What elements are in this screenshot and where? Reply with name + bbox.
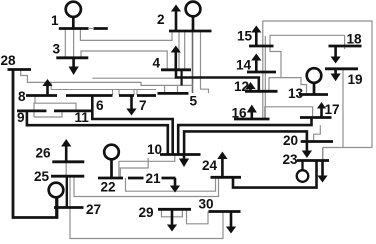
load arrow bus 26 [61, 139, 71, 162]
wire rail 2-6 [92, 77, 176, 79]
svg-text:16: 16 [232, 106, 248, 121]
bus 1 [59, 27, 108, 30]
bus 12 [245, 90, 278, 93]
svg-text:13: 13 [288, 86, 304, 101]
bus 15 [249, 45, 274, 48]
bus 2 [169, 30, 212, 33]
wire 27-30 [70, 176, 223, 238]
svg-text:28: 28 [1, 53, 17, 68]
wire 15-18 [269, 35, 345, 91]
wire 10-20 thick [184, 131, 307, 154]
wire 10-17 thick [178, 118, 311, 155]
wire 22-24 [126, 177, 216, 191]
generator G2 [186, 2, 201, 31]
bus 25 [51, 175, 84, 178]
wire 2-5 [178, 31, 180, 70]
bus 6 [66, 94, 156, 97]
bus 3 [56, 56, 88, 59]
wire 12 loop to 19 [263, 21, 372, 148]
svg-text:7: 7 [139, 98, 147, 113]
svg-text:18: 18 [347, 32, 363, 47]
wire 8-9 [34, 96, 36, 104]
wire 9-10 thick [27, 111, 168, 155]
load arrow bus 19 [331, 69, 341, 82]
load arrow bus 4 [171, 46, 181, 70]
svg-text:11: 11 [75, 110, 90, 125]
wire rail 6-8 [21, 70, 193, 86]
wire 2-4 [184, 31, 186, 70]
bus 11 [54, 110, 91, 113]
wire 12-15 [264, 36, 266, 119]
bus 18 [329, 45, 362, 48]
bus 14 [247, 71, 276, 74]
bus 29 [158, 208, 191, 211]
load arrow bus 30 [226, 212, 236, 234]
wire box 9-11 lower [34, 111, 62, 117]
wire 6-10 thick [92, 96, 172, 155]
bus 30 [209, 210, 241, 213]
wire 16-17 [265, 107, 313, 119]
bus 19 [325, 67, 358, 70]
bus 17 [300, 116, 332, 119]
bus 1 gap link [88, 28, 94, 30]
bus 26 [52, 160, 84, 163]
load arrow bus 14 [251, 54, 261, 73]
svg-text:20: 20 [283, 133, 298, 148]
wire 19-20 drop [342, 69, 344, 148]
svg-text:26: 26 [36, 146, 52, 161]
svg-text:6: 6 [96, 98, 104, 113]
bus 20 [301, 140, 333, 143]
wire 17-23 [322, 148, 324, 161]
wire 2-6 [192, 31, 194, 93]
wire 23-24 thick [233, 161, 317, 188]
wire 1-2 [80, 29, 172, 41]
bus 10 [160, 153, 201, 156]
svg-text:27: 27 [86, 202, 101, 217]
svg-text:30: 30 [199, 197, 214, 212]
svg-text:22: 22 [101, 180, 117, 195]
generator G13 [307, 68, 322, 94]
wire 4-6 thick [181, 70, 183, 86]
wire 29-30 [162, 209, 183, 217]
bus 27 [54, 206, 84, 209]
wire 10-22 [119, 155, 175, 179]
bus 13 [299, 93, 328, 96]
wire hop line bus 6 second [134, 90, 137, 96]
svg-text:21: 21 [146, 171, 162, 186]
svg-text:2: 2 [157, 12, 165, 27]
bus 9 [17, 110, 47, 113]
svg-text:9: 9 [17, 110, 25, 125]
svg-text:4: 4 [153, 56, 161, 71]
wire 4-12 thick [176, 70, 259, 92]
wire 1-3 [64, 29, 66, 58]
svg-text:15: 15 [237, 29, 253, 44]
wire hop rail bus 6 [51, 82, 156, 89]
wire 29-30 deep [187, 209, 209, 224]
bus 8 [26, 94, 57, 97]
wire 17-20 staircase [314, 125, 321, 141]
bus 28 [8, 68, 32, 71]
load arrow bus 24 [217, 152, 227, 178]
generator G1 [66, 2, 81, 29]
svg-text:24: 24 [202, 158, 218, 173]
load arrow bus 16 [247, 105, 257, 119]
wire hop line bus 6 [113, 90, 120, 96]
load arrow bus 15 [251, 26, 261, 47]
load arrow bus 12 [245, 82, 255, 91]
wire 3-4 [81, 51, 167, 70]
svg-text:10: 10 [147, 142, 162, 157]
load arrow bus 10 [179, 155, 189, 168]
svg-text:3: 3 [53, 42, 61, 57]
load arrow bus 3 [69, 58, 79, 75]
generator G27 [49, 183, 64, 218]
wire 24-25 [74, 176, 219, 196]
wire 25-26 [65, 162, 67, 176]
wire drop to bus 5 right [177, 85, 179, 93]
svg-text:1: 1 [51, 13, 59, 28]
svg-text:23: 23 [283, 152, 299, 167]
svg-text:19: 19 [348, 72, 364, 87]
bus 24 [211, 176, 242, 179]
load arrow bus 21 [170, 178, 180, 193]
wire 1-3 second circuit [73, 29, 75, 58]
wire drop to bus 5 left [164, 85, 166, 93]
wire 27-28 thick [13, 71, 57, 218]
generator G23 [297, 161, 309, 182]
svg-text:25: 25 [34, 169, 50, 184]
load arrow bus 7 [126, 96, 136, 116]
load arrow bus 8 [42, 79, 52, 96]
svg-text:5: 5 [190, 94, 198, 109]
load arrow bus 17 [317, 102, 326, 118]
load arrow bus 23 [317, 161, 327, 183]
svg-text:29: 29 [139, 205, 155, 220]
label 21 [144, 171, 162, 186]
bus 4 [161, 68, 191, 71]
generator G22 [104, 145, 119, 178]
load arrow bus 2 [171, 5, 181, 32]
wire 10-21 [120, 158, 148, 178]
svg-text:17: 17 [325, 102, 340, 117]
bus 5 [158, 92, 189, 95]
load arrow bus 29 [167, 209, 177, 231]
wire box 9-11 [34, 103, 76, 117]
wire 25-27 thick [66, 176, 68, 207]
svg-text:12: 12 [234, 79, 250, 94]
bus 16 [234, 118, 270, 121]
svg-text:8: 8 [18, 89, 26, 104]
load arrow bus 20 [302, 142, 312, 159]
bus 21 [128, 177, 176, 180]
wire 2-5 staircase [201, 31, 209, 93]
svg-text:14: 14 [236, 58, 252, 73]
bus 23 [297, 159, 329, 162]
wire 12-13 [281, 78, 307, 95]
bus 22 [98, 177, 123, 180]
load arrow bus 18 [331, 46, 341, 64]
